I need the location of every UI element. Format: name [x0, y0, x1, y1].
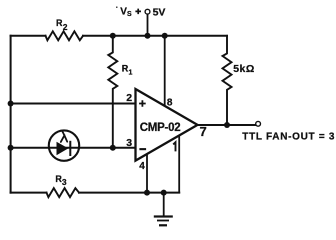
wire inverting input (pin 3): [11, 147, 136, 149]
junction dot R1 bottom / pin3: [110, 145, 116, 151]
svg-text:5V: 5V: [153, 7, 166, 19]
junction dot left rail / pin2: [8, 101, 14, 107]
op-amp minus sign: [139, 148, 146, 150]
wire pin4 stub: [146, 154, 148, 192]
wire bottom: [11, 192, 180, 194]
svg-text:2: 2: [126, 92, 132, 104]
svg-text:7: 7: [200, 124, 207, 139]
wire ground stub: [163, 193, 165, 216]
junction dot ground / bottom wire: [161, 190, 167, 196]
junction dot output / 5k: [224, 122, 230, 128]
junction dot left rail / pin3: [8, 145, 14, 151]
photodiode D1 cathode bar: [69, 141, 71, 156]
svg-text:TTL FAN-OUT = 3: TTL FAN-OUT = 3: [242, 132, 335, 143]
op-amp plus sign: [139, 100, 146, 107]
svg-text:4: 4: [139, 161, 145, 172]
junction dot pin8 rail: [162, 33, 168, 39]
junction dot supply entry: [145, 33, 151, 39]
svg-text:5kΩ: 5kΩ: [233, 63, 255, 75]
photodiode lambda symbol: [61, 131, 67, 142]
wire top supply rail: [11, 35, 227, 37]
speck artifact near Vs: [116, 7, 118, 9]
wire output pin7: [198, 124, 256, 126]
ground symbol: [154, 215, 173, 226]
resistor R1: [108, 36, 117, 148]
wire supply stub: [147, 14, 149, 35]
wire pin1 stub: [178, 136, 180, 193]
junction dot R1 top: [110, 33, 116, 39]
terminal Vs: [145, 9, 150, 14]
wire non-inverting input (pin 2): [11, 103, 136, 105]
resistor R2: [46, 31, 84, 40]
junction dot pin4 / bottom wire: [144, 190, 150, 196]
wire pin8 stub: [164, 36, 166, 106]
svg-text:8: 8: [167, 97, 173, 108]
photodiode D1 arrow: [57, 142, 69, 155]
resistor 5k: [223, 36, 232, 125]
svg-text:CMP-02: CMP-02: [140, 122, 181, 134]
pin number 1: [173, 142, 175, 151]
wire left rail: [10, 36, 12, 193]
photodiode D1 circle: [49, 130, 79, 160]
resistor R3: [47, 188, 80, 197]
label plus: [135, 9, 141, 15]
op-amp U1 CMP-02 triangle: [136, 89, 198, 161]
terminal TTL output: [256, 121, 261, 126]
svg-text:3: 3: [126, 137, 132, 149]
